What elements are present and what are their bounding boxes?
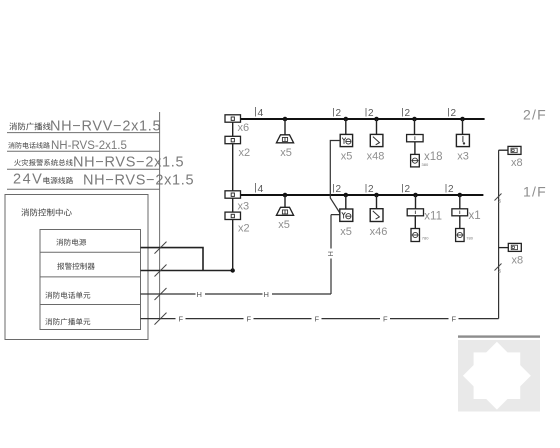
manual call point 1/F <box>340 209 353 221</box>
tick on broadcast wire <box>155 313 167 325</box>
watermark logo star <box>463 342 531 410</box>
smoke detector 2/F <box>370 134 383 146</box>
watermark logo square <box>458 340 540 412</box>
svg-text:2/F: 2/F <box>523 107 547 123</box>
wire count 2 on 2/F bus <box>365 108 367 117</box>
label 消防电源 <box>56 239 86 246</box>
svg-text:x8: x8 <box>511 157 523 169</box>
node smoke detector tap 1/F <box>374 193 379 198</box>
tick on F riser 1F <box>495 264 502 271</box>
svg-text:H: H <box>197 290 202 299</box>
svg-text:F: F <box>452 315 457 324</box>
wire to wall speaker 2/F <box>499 149 508 151</box>
control module 2/F <box>407 135 424 142</box>
wire broadcast line F horizontal <box>141 318 499 320</box>
svg-text:x48: x48 <box>367 151 385 163</box>
legend row1 label 消防广播线 <box>9 122 50 130</box>
legend row3 label 火灾报警系统总线 <box>14 159 73 166</box>
wire telephone line H horizontal <box>141 293 332 295</box>
svg-text:x2: x2 <box>238 223 250 235</box>
tick on F riser 2F <box>495 194 502 201</box>
wire legend riser <box>159 112 161 319</box>
wire alarm bus 2/F <box>241 118 485 120</box>
svg-text:4: 4 <box>258 183 264 195</box>
tick on power wire <box>155 242 167 254</box>
wire count 4 on 1/F bus <box>255 183 257 193</box>
node smoke detector tap 2/F <box>374 117 379 122</box>
label 消防控制中心 <box>21 208 71 216</box>
divider telephone unit / broadcast unit <box>40 304 141 306</box>
module B1 2/F x6 <box>225 115 241 122</box>
node speaker tap 1/F <box>283 193 288 198</box>
wire alarm controller bus output <box>141 270 233 272</box>
tick on telephone wire <box>155 288 167 300</box>
svg-text:780: 780 <box>466 236 473 241</box>
module B4 1/F x2 <box>225 212 241 219</box>
node control module tap 1/F b <box>458 193 463 198</box>
wire count 2 on 1/F bus <box>402 184 404 193</box>
fire bell 2/F <box>456 134 469 146</box>
node speaker tap 2/F <box>283 117 288 122</box>
svg-text:2: 2 <box>448 184 454 195</box>
svg-text:x5: x5 <box>280 147 292 159</box>
svg-text:NH-RVS-2x1.5: NH-RVS-2x1.5 <box>51 140 127 152</box>
svg-text:F: F <box>383 315 388 324</box>
wire drop to smoke detector 2/F <box>376 119 378 134</box>
svg-text:1/F: 1/F <box>523 184 547 200</box>
wire drop to speaker 1/F <box>284 195 286 207</box>
wire phone link 2/F to 1/F <box>330 141 340 214</box>
wire fire power output <box>141 248 204 271</box>
svg-text:2: 2 <box>451 108 457 119</box>
equipment stack box <box>40 230 141 330</box>
svg-text:2: 2 <box>405 184 411 195</box>
svg-text:NH−RVS−2x1.5: NH−RVS−2x1.5 <box>73 155 184 171</box>
svg-text:x3: x3 <box>238 201 250 213</box>
wire count 4 on 2/F bus <box>255 107 257 117</box>
wire count 2 on 1/F bus <box>333 184 335 193</box>
svg-text:2: 2 <box>405 108 411 119</box>
junction node controller/riser <box>231 268 235 272</box>
wire drop to smoke detector 1/F <box>376 195 378 209</box>
wire drop to control module 1/F b <box>459 195 461 209</box>
svg-text:NH−RVS−2x1.5: NH−RVS−2x1.5 <box>83 173 194 189</box>
wire alarm bus 1/F <box>241 194 484 196</box>
wire count 2 on 2/F bus <box>402 108 404 117</box>
control module 1/F b <box>452 209 468 216</box>
label 消防广播单元 <box>45 318 90 325</box>
label 报警控制器 <box>57 263 95 270</box>
wire module to indicator 2/F <box>414 142 416 155</box>
divider fire power / alarm controller <box>40 251 141 253</box>
wire drop to speaker 2/F <box>284 119 286 135</box>
tick on controller wire <box>155 265 167 277</box>
wire count 2 on 1/F bus <box>445 184 447 193</box>
watermark logo bar <box>458 335 540 337</box>
wire drop to call point 1/F <box>345 195 347 209</box>
manual call point 2/F <box>340 134 352 146</box>
smoke detector 1/F <box>370 209 383 222</box>
wire module to indicator 1/F a <box>414 216 416 229</box>
wire drop to control module 2/F <box>414 119 416 135</box>
wire to wall speaker 1/F <box>499 247 509 249</box>
wire broadcast riser F vertical <box>498 150 500 318</box>
wire count 2 on 1/F bus <box>365 184 367 193</box>
indicator lamp 1/F b <box>456 229 465 242</box>
svg-text:H: H <box>326 251 335 256</box>
svg-text:H: H <box>264 290 269 299</box>
svg-text:4: 4 <box>258 107 264 119</box>
svg-text:x3: x3 <box>457 151 469 163</box>
svg-text:x46: x46 <box>370 226 388 238</box>
wall speaker group 1/F x8 <box>508 243 521 251</box>
node control module tap 1/F <box>413 193 418 198</box>
svg-text:2: 2 <box>368 184 374 195</box>
speaker SP 2/F <box>276 135 293 143</box>
wire drop to control module 1/F <box>415 195 417 209</box>
svg-text:3: 3 <box>498 199 501 205</box>
indicator lamp 1/F a <box>411 229 420 242</box>
control module 1/F a <box>407 209 423 216</box>
divider alarm controller / telephone unit <box>40 276 141 278</box>
legend underline alarm bus <box>7 168 160 170</box>
label 消防电话单元 <box>45 292 90 299</box>
speaker SP 1/F <box>276 207 293 215</box>
node call point tap 2/F <box>344 117 349 122</box>
svg-text:x11: x11 <box>424 211 442 223</box>
legend underline broadcast line <box>7 132 160 134</box>
control center outline box <box>5 195 148 340</box>
node call point tap 1/F <box>344 193 349 198</box>
node control module tap 2/F <box>412 117 417 122</box>
svg-text:F: F <box>315 315 320 324</box>
legend underline 24V power line <box>7 188 160 190</box>
legend underline telephone line <box>7 150 160 152</box>
svg-text:x8: x8 <box>512 255 524 267</box>
module B3 1/F x3 <box>225 191 241 198</box>
node bell tap 2/F <box>460 117 465 122</box>
svg-text:x6: x6 <box>238 122 250 134</box>
svg-text:2: 2 <box>336 108 342 119</box>
wire drop to call point 2/F <box>345 119 347 134</box>
wire count 2 on 2/F bus <box>333 108 335 117</box>
module B2 2/F x2 <box>225 136 241 143</box>
svg-text:F: F <box>247 315 252 324</box>
svg-text:x2: x2 <box>239 147 251 159</box>
wire drop to bell 2/F <box>462 119 464 134</box>
svg-text:F: F <box>179 315 184 324</box>
svg-text:2: 2 <box>336 184 342 195</box>
svg-text:380: 380 <box>422 162 429 167</box>
wall speaker group 2/F x8 <box>508 146 521 154</box>
indicator lamp 2/F <box>411 154 420 167</box>
svg-text:2: 2 <box>368 108 374 119</box>
svg-text:x5: x5 <box>278 219 290 231</box>
wire telephone line H vertical <box>331 215 340 294</box>
svg-text:x5: x5 <box>341 151 353 163</box>
svg-text:x5: x5 <box>340 226 352 238</box>
svg-text:780: 780 <box>422 236 429 241</box>
wire count 2 on 2/F bus <box>448 108 450 117</box>
wire module to indicator 1/F b <box>459 216 461 229</box>
legend row4 label 电源线路 <box>43 177 73 184</box>
legend row2 label 消防电话线路 <box>8 142 50 148</box>
wire left riser segments <box>232 122 234 270</box>
svg-text:24V: 24V <box>13 172 43 188</box>
svg-text:x1: x1 <box>469 210 481 222</box>
svg-text:3: 3 <box>498 269 501 275</box>
